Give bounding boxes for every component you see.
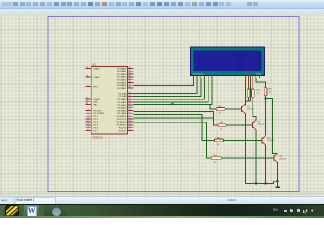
wire R5b bottom to Q2 collector [253, 101, 256, 121]
svg-text:1k: 1k [220, 129, 223, 131]
U1 pin name texts [94, 67, 105, 132]
svg-text:P2.7/A15: P2.7/A15 [117, 112, 127, 115]
svg-text:P2.3/A11: P2.3/A11 [118, 101, 128, 104]
svg-text:Q2: Q2 [258, 121, 262, 123]
desktop sliver [0, 216, 324, 218]
taskbar [0, 204, 324, 218]
ground bus wire [245, 181, 277, 183]
transistor Q1 [242, 104, 246, 113]
display bottom-right pins [245, 76, 259, 79]
svg-text:PSEN: PSEN [94, 99, 100, 101]
junction R6 to Q4 branch [265, 98, 267, 100]
wire R1 to Q1 base [225, 108, 241, 110]
wire display pin to R6 top [256, 78, 266, 84]
svg-text:P0.2/AD2: P0.2/AD2 [117, 73, 127, 76]
resistor R6 [264, 88, 267, 96]
display digit 2 [210, 53, 220, 69]
svg-text:P3.0/RXD: P3.0/RXD [117, 116, 127, 118]
wire R5b bottom stub [252, 97, 254, 101]
svg-text:2N2222: 2N2222 [267, 140, 275, 142]
transistor Q2 [252, 120, 256, 129]
svg-text:P1.0/T2: P1.0/T2 [94, 110, 102, 112]
svg-text:1k: 1k [214, 162, 217, 164]
svg-text:Q3: Q3 [267, 137, 271, 139]
display digit 4 [246, 53, 256, 69]
svg-text:1k: 1k [219, 113, 222, 115]
svg-text:P2.6/A14: P2.6/A14 [117, 109, 127, 112]
ground symbol [277, 181, 279, 186]
resistor R2 [218, 124, 226, 127]
node origin marker [171, 102, 175, 106]
svg-text:P0.3/AD3: P0.3/AD3 [117, 76, 127, 79]
svg-text:P0.7/AD7: P0.7/AD7 [117, 87, 127, 90]
top toolbar [0, 0, 324, 9]
svg-text:P1.4: P1.4 [94, 122, 99, 124]
wire Q3 emitter to bus [265, 145, 267, 183]
U1 left pin numbers 19 18 9 [86, 67, 90, 105]
wire spare row joins B2 vertical [133, 117, 213, 119]
U1 right pin numbers [128, 67, 131, 131]
resistor R4 [211, 157, 221, 160]
svg-text:1234: 1234 [256, 74, 262, 76]
U1 right pins P3 block [128, 116, 134, 130]
svg-text:P3.1/TXD: P3.1/TXD [117, 119, 127, 121]
svg-text:P1.7: P1.7 [94, 130, 99, 132]
junction Q2 emitter bus [255, 182, 257, 184]
junction Q4 emitter end [277, 180, 279, 182]
svg-text:P2.1/A9: P2.1/A9 [119, 95, 128, 98]
wire base B3 [133, 114, 214, 140]
svg-text:RST: RST [94, 86, 99, 88]
wire D3 [133, 78, 204, 99]
resistor R5a vertical [247, 89, 250, 97]
svg-text:P2.5/A13: P2.5/A13 [117, 107, 127, 110]
display digit 1 [196, 53, 206, 69]
svg-text:P2.4/A12: P2.4/A12 [117, 104, 127, 107]
svg-text:2N2222: 2N2222 [258, 124, 266, 126]
wire D5 [133, 78, 212, 105]
wire display pin down to Q1 collector [244, 78, 246, 101]
schematic grid [0, 14, 324, 196]
svg-text:P3.4/T0: P3.4/T0 [119, 128, 127, 130]
transistor Q3 [262, 136, 266, 145]
svg-text:P3.5/T1: P3.5/T1 [119, 130, 127, 132]
wire base B4 [133, 122, 211, 158]
R6 top stub [265, 84, 267, 87]
wire base B2 [133, 112, 218, 125]
resistor R3 [214, 139, 223, 142]
transistor Q4 [274, 153, 278, 162]
svg-text:P1.1/T2EX: P1.1/T2EX [94, 113, 105, 115]
wire R5a bottom stub [248, 97, 250, 101]
svg-text:XTAL2: XTAL2 [94, 76, 101, 79]
wire display pin to R5a top [248, 78, 250, 89]
wire R2 to Q2 base [226, 124, 252, 126]
wire display pin to R5b top [252, 78, 254, 89]
svg-text:R6: R6 [269, 89, 273, 91]
wire Q4 emitter to bus [277, 163, 279, 182]
svg-text:AT89C51: AT89C51 [92, 136, 104, 140]
svg-text:P1.6: P1.6 [94, 128, 99, 130]
svg-text:U1: U1 [92, 62, 96, 66]
wire D1 [133, 78, 197, 94]
junction Q3 emitter bus [265, 182, 267, 184]
wire branch down to Q4 collector [266, 99, 278, 154]
microcontroller U1 body [91, 66, 127, 134]
svg-text:ALE: ALE [94, 101, 99, 104]
svg-text:P1.3: P1.3 [94, 119, 99, 121]
svg-text:10: 10 [269, 92, 272, 94]
wire D0 MCU to display [133, 78, 193, 86]
svg-text:2N2222: 2N2222 [247, 109, 255, 111]
display module DS1 frame [190, 47, 264, 76]
svg-text:P2.0/A8: P2.0/A8 [119, 92, 128, 95]
svg-text:R5: R5 [257, 90, 261, 92]
wire R3 to Q3 base [224, 139, 262, 141]
svg-text:P3.2/INT0: P3.2/INT0 [117, 122, 128, 124]
wire Q1 emitter to bus [244, 113, 246, 183]
U1 right pins P2 block [128, 94, 134, 114]
svg-text:P0.0/AD0: P0.0/AD0 [117, 67, 127, 70]
svg-text:P1.2: P1.2 [94, 116, 99, 118]
svg-text:abcdefg dp: abcdefg dp [193, 74, 205, 76]
resistor R1 [216, 108, 225, 111]
svg-text:P0.5/AD5: P0.5/AD5 [117, 81, 127, 84]
svg-text:P0.6/AD6: P0.6/AD6 [117, 84, 127, 87]
svg-text:Q4: Q4 [279, 156, 283, 158]
svg-text:1k: 1k [257, 93, 260, 95]
svg-text:1k: 1k [217, 144, 220, 146]
U1 left pins P1.0-P1.7 [86, 111, 92, 131]
svg-text:P3.3/INT1: P3.3/INT1 [117, 125, 128, 127]
svg-text:P1.5: P1.5 [94, 125, 99, 127]
wire display pin thread between R5 pair [250, 78, 252, 101]
wire D4 [133, 78, 208, 102]
svg-text:Q1: Q1 [247, 106, 251, 108]
wire R4 to Q4 base [221, 157, 274, 159]
wire R5a bottom to Q1 collector line [245, 101, 250, 105]
svg-text:XTAL1: XTAL1 [94, 67, 101, 70]
display digit 3 [224, 53, 234, 69]
status bar [0, 196, 324, 205]
U1 left pins XTAL1 XTAL2 RST [86, 69, 92, 87]
wire base B1 tap [210, 105, 216, 109]
sheet border frame [48, 17, 299, 192]
wire Q2 emitter to bus [255, 130, 257, 184]
wire Q1 collector up [244, 104, 246, 105]
secondary strip [0, 9, 324, 14]
display bottom-left pins [193, 76, 212, 78]
svg-text:P2.2/A10: P2.2/A10 [117, 98, 127, 101]
U1 left pin numbers 1-8 [88, 109, 90, 131]
wire D2 [133, 78, 200, 97]
U1 right pins P0 block [128, 69, 134, 89]
display screen [194, 50, 262, 71]
resistor R5b vertical [251, 89, 254, 97]
U1 left pins PSEN ALE EA [86, 99, 92, 105]
svg-text:2N2222: 2N2222 [279, 159, 287, 161]
svg-text:P0.4/AD4: P0.4/AD4 [117, 79, 127, 82]
svg-text:P0.1/AD1: P0.1/AD1 [117, 70, 127, 73]
wire R6 bottom to Q3 collector [265, 96, 267, 136]
